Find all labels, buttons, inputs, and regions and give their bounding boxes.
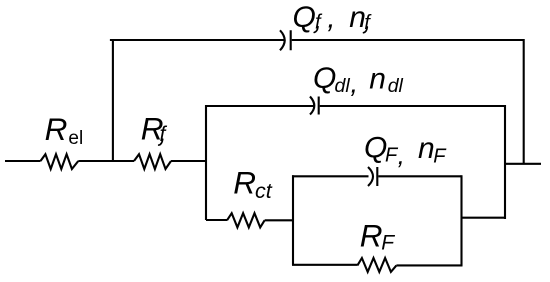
wire node B to R_ct (206, 219, 227, 221)
svg-text:F: F (433, 145, 447, 167)
svg-text:Q: Q (313, 62, 336, 95)
wire node D to node E (462, 217, 506, 219)
svg-text:el: el (68, 128, 83, 149)
wire outer right vertical (523, 39, 525, 164)
svg-text:R: R (233, 165, 256, 201)
CPE Q_dl (310, 97, 319, 115)
resistor R_f (134, 154, 171, 169)
label R_ct (233, 165, 272, 203)
wire node C to R_F (292, 264, 357, 266)
svg-text:,: , (327, 2, 335, 35)
svg-text:R: R (360, 217, 383, 253)
wire input stub (5, 160, 41, 162)
label R_el (45, 111, 84, 149)
wire middle loop left vertical (205, 105, 207, 220)
CPE Q_F (368, 167, 377, 186)
wire inner loop right vertical (460, 175, 462, 265)
wire Q_dl branch right (320, 105, 505, 107)
svg-text:F: F (381, 232, 395, 255)
wire middle loop right vertical (504, 105, 506, 219)
wire inner loop left vertical (292, 175, 294, 265)
wire R_ct to node C (265, 219, 293, 221)
label R_F (360, 217, 395, 254)
label Q_dl, n_dl (313, 62, 404, 99)
wire output stub (504, 163, 541, 165)
wire top branch right (292, 39, 524, 41)
resistor R_ct (227, 213, 265, 227)
svg-text:Q: Q (364, 132, 387, 165)
resistor R_el (41, 154, 79, 169)
wire R_f to node B (171, 160, 206, 162)
svg-text:dl: dl (388, 75, 404, 97)
svg-text:,: , (350, 68, 358, 99)
wire top branch left (110, 39, 284, 41)
wire Q_dl branch left (205, 105, 314, 107)
wire node A to top branch (112, 40, 114, 161)
label Q_F, n_F (364, 132, 447, 170)
wire Q_F branch left (292, 175, 369, 177)
wire R_F branch right (396, 264, 462, 266)
svg-text:Q: Q (293, 1, 316, 34)
svg-text:,: , (398, 140, 405, 170)
svg-text:n: n (369, 62, 386, 95)
svg-text:n: n (418, 132, 435, 165)
label R_f (141, 111, 168, 147)
label Q_f, n_f (293, 1, 373, 35)
wire R_el to node A (78, 160, 134, 162)
svg-text:R: R (45, 111, 68, 147)
svg-text:ct: ct (255, 179, 273, 203)
wire Q_F branch right (378, 175, 461, 177)
resistor R_F (357, 258, 396, 272)
svg-text:dl: dl (335, 75, 351, 97)
CPE Q_f (280, 30, 291, 50)
